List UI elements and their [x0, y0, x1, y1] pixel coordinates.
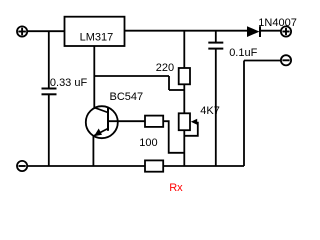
svg-text:BC547: BC547 [110, 91, 144, 103]
terminal + output [281, 26, 291, 36]
svg-text:LM317: LM317 [80, 31, 114, 43]
capacitor C2 plates [208, 43, 223, 49]
svg-text:100: 100 [139, 137, 157, 149]
wire - output horizontal [244, 60, 281, 62]
svg-text:0.33 uF: 0.33 uF [50, 77, 88, 89]
regulator U1 LM317 box [65, 17, 125, 46]
wire bottom rail right [163, 165, 244, 167]
svg-text:Rx: Rx [169, 182, 183, 194]
wire base to R 100 [108, 120, 145, 122]
wire - output down [243, 61, 245, 167]
wire pot bottom to rail [183, 130, 185, 166]
wire LM317 ADJ pin down [93, 46, 95, 108]
transistor base bar [107, 108, 109, 131]
transistor emitter diagonal [93, 129, 108, 137]
wire 0.33uF branch bottom [48, 94, 50, 166]
wire bottom rail left [28, 165, 146, 167]
transistor collector diagonal [94, 108, 108, 113]
resistor R1 220 [179, 68, 190, 84]
transistor Q1 BC547 circle [86, 106, 118, 138]
svg-text:4K7: 4K7 [200, 105, 220, 117]
wire ADJ jog down [168, 76, 170, 90]
pot wiper arrow [191, 119, 197, 125]
resistor R3 100 [145, 116, 163, 127]
wire ADJ jog horizontal [94, 75, 169, 77]
capacitor C2 0.1uF branch top [215, 31, 217, 43]
wire C2 bottom to rail [215, 49, 217, 166]
terminal - output [281, 55, 291, 65]
wire 0.33uF branch top [48, 31, 50, 88]
terminal - input [17, 161, 27, 171]
potentiometer R2 4K7 [179, 113, 190, 130]
transistor emitter arrowhead [94, 129, 102, 137]
wire ADJ jog to R 220 bottom [169, 89, 184, 91]
diode cathode bar [259, 26, 261, 37]
svg-text:0.1uF: 0.1uF [229, 47, 257, 59]
svg-text:220: 220 [156, 62, 174, 74]
wire R100 right jog [163, 121, 184, 153]
wire emitter down [92, 136, 94, 166]
capacitor C1 0.33uF plates [42, 89, 57, 95]
terminal + input [17, 26, 27, 36]
wire 220 branch from rail [183, 31, 185, 68]
wire diode to + output [260, 30, 281, 32]
wire input to LM317 [28, 30, 65, 32]
wire LM317 output rail [125, 30, 248, 32]
resistor Rx box [145, 160, 163, 171]
svg-text:1N4007: 1N4007 [258, 17, 297, 29]
diode D1 1N4007 triangle [247, 26, 260, 37]
wire wiper L [184, 122, 198, 136]
wire 220 to pot [183, 84, 185, 113]
